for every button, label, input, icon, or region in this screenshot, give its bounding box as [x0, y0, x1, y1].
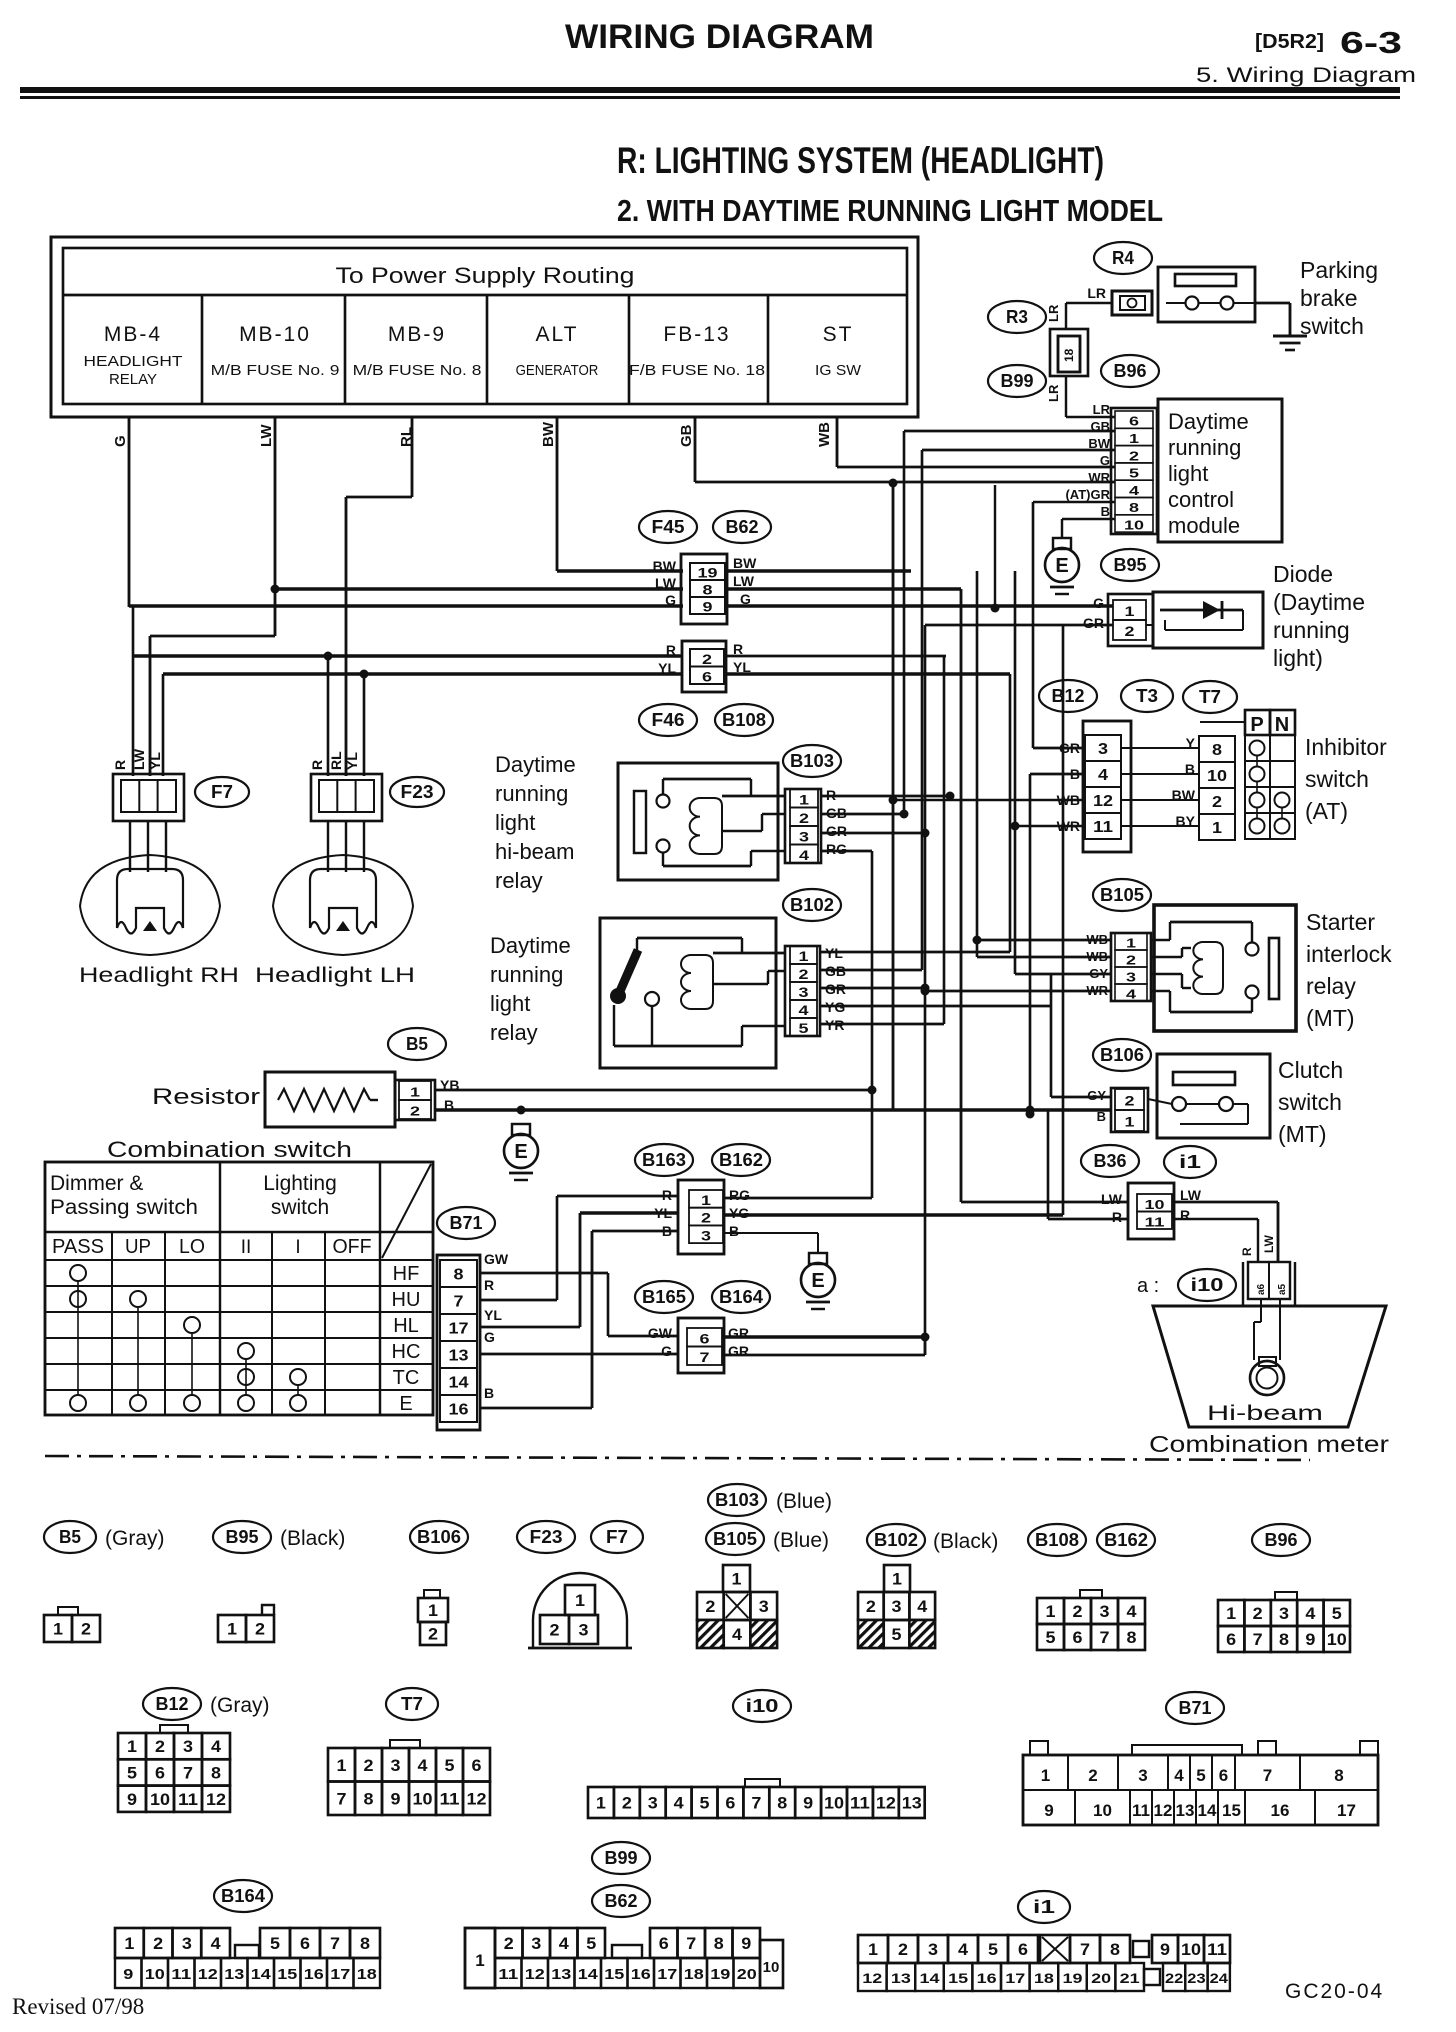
svg-text:FB-13: FB-13	[663, 323, 730, 346]
svg-text:9: 9	[1160, 1940, 1170, 1959]
svg-text:3: 3	[928, 1940, 938, 1959]
svg-text:M/B FUSE No. 9: M/B FUSE No. 9	[211, 362, 340, 379]
svg-text:B: B	[484, 1385, 494, 1401]
svg-text:GB: GB	[678, 424, 695, 447]
svg-text:F23: F23	[530, 1527, 563, 1547]
svg-text:B71: B71	[1179, 1698, 1212, 1718]
svg-text:Headlight RH: Headlight RH	[79, 964, 239, 987]
svg-text:15: 15	[1222, 1801, 1241, 1820]
svg-text:13: 13	[224, 1966, 244, 1983]
svg-text:B164: B164	[221, 1886, 265, 1906]
svg-text:HF: HF	[393, 1263, 420, 1285]
svg-text:1: 1	[596, 1794, 606, 1813]
svg-text:IG SW: IG SW	[815, 362, 862, 379]
svg-text:2: 2	[1253, 1604, 1263, 1623]
svg-text:7: 7	[686, 1934, 696, 1953]
svg-text:relay: relay	[495, 868, 543, 893]
svg-text:3: 3	[391, 1756, 401, 1775]
svg-text:G: G	[661, 1343, 672, 1359]
svg-text:B162: B162	[1104, 1530, 1148, 1550]
svg-text:B163: B163	[642, 1150, 686, 1170]
svg-text:11: 11	[1093, 819, 1113, 836]
svg-text:11: 11	[440, 1789, 460, 1808]
svg-text:7: 7	[700, 1349, 710, 1365]
svg-text:5: 5	[700, 1794, 710, 1813]
svg-text:i1: i1	[1033, 1897, 1055, 1917]
svg-text:(MT): (MT)	[1278, 1121, 1327, 1147]
svg-text:5. Wiring Diagram: 5. Wiring Diagram	[1196, 64, 1416, 87]
svg-text:PASS: PASS	[52, 1236, 104, 1258]
svg-text:B108: B108	[1035, 1530, 1079, 1550]
svg-text:P: P	[1250, 714, 1263, 736]
svg-text:3: 3	[183, 1737, 193, 1756]
svg-text:1: 1	[1046, 1602, 1056, 1621]
svg-text:16: 16	[631, 1966, 651, 1983]
svg-text:LW: LW	[131, 748, 147, 770]
svg-text:8: 8	[364, 1789, 374, 1808]
svg-text:1: 1	[868, 1940, 878, 1959]
svg-text:Inhibitor: Inhibitor	[1305, 734, 1387, 760]
svg-text:B95: B95	[1114, 555, 1147, 575]
svg-text:6: 6	[1018, 1940, 1028, 1959]
svg-text:Daytime: Daytime	[1168, 409, 1249, 434]
svg-text:i1: i1	[1179, 1152, 1201, 1172]
svg-text:OFF: OFF	[333, 1236, 372, 1258]
svg-text:GR: GR	[826, 823, 847, 839]
svg-text:B165: B165	[642, 1287, 686, 1307]
svg-text:[D5R2]: [D5R2]	[1255, 31, 1324, 53]
svg-text:21: 21	[1120, 1970, 1140, 1986]
svg-text:B102: B102	[874, 1530, 918, 1550]
svg-text:B106: B106	[1100, 1045, 1144, 1065]
svg-text:5: 5	[445, 1756, 455, 1775]
svg-text:YL: YL	[344, 752, 360, 770]
svg-text:12: 12	[206, 1790, 226, 1809]
svg-text:B36: B36	[1094, 1151, 1127, 1171]
svg-text:G: G	[665, 592, 676, 608]
svg-text:Parking: Parking	[1300, 257, 1378, 283]
svg-text:11: 11	[1207, 1940, 1227, 1959]
svg-text:12: 12	[1093, 793, 1113, 810]
svg-text:1: 1	[428, 1601, 438, 1620]
svg-text:5: 5	[270, 1934, 280, 1953]
svg-text:10: 10	[1207, 768, 1227, 785]
svg-text:17: 17	[1005, 1970, 1025, 1986]
svg-text:2: 2	[153, 1934, 163, 1953]
svg-text:3: 3	[1098, 741, 1108, 758]
svg-text:MB-10: MB-10	[239, 323, 311, 346]
svg-text:WR: WR	[1088, 470, 1110, 485]
svg-text:G: G	[1093, 595, 1104, 611]
svg-text:B71: B71	[450, 1213, 483, 1233]
svg-text:7: 7	[1263, 1766, 1272, 1785]
svg-text:HEADLIGHT: HEADLIGHT	[84, 353, 183, 370]
svg-text:9: 9	[123, 1966, 133, 1983]
svg-text:19: 19	[1063, 1970, 1083, 1986]
svg-text:LW: LW	[1101, 1191, 1123, 1207]
svg-text:15: 15	[604, 1966, 624, 1983]
svg-text:12: 12	[198, 1966, 218, 1983]
svg-text:Hi-beam: Hi-beam	[1207, 1402, 1323, 1425]
svg-text:8: 8	[454, 1267, 464, 1284]
svg-text:2: 2	[1125, 1093, 1135, 1109]
svg-text:2: 2	[622, 1794, 632, 1813]
svg-text:1: 1	[127, 1737, 137, 1756]
svg-text:ALT: ALT	[536, 323, 579, 346]
svg-text:10: 10	[763, 1959, 780, 1976]
svg-text:R: R	[484, 1277, 494, 1293]
svg-text:9: 9	[703, 599, 713, 615]
svg-text:B105: B105	[1100, 885, 1144, 905]
svg-text:3: 3	[1126, 970, 1136, 985]
svg-text:RG: RG	[729, 1187, 750, 1203]
svg-text:running: running	[490, 962, 563, 987]
svg-text:G: G	[1100, 453, 1110, 468]
svg-text:RELAY: RELAY	[109, 371, 157, 388]
svg-text:13: 13	[449, 1348, 469, 1365]
svg-text:8: 8	[211, 1763, 221, 1782]
svg-text:3: 3	[759, 1597, 769, 1616]
svg-text:B62: B62	[605, 1891, 638, 1911]
svg-text:YL: YL	[658, 660, 676, 676]
svg-text:4: 4	[958, 1940, 969, 1959]
svg-text:I: I	[295, 1237, 300, 1258]
svg-text:B62: B62	[726, 517, 759, 537]
svg-text:RG: RG	[826, 841, 847, 857]
svg-text:B5: B5	[406, 1034, 428, 1054]
svg-text:5: 5	[799, 1020, 809, 1036]
svg-text:LO: LO	[179, 1236, 205, 1258]
svg-text:1: 1	[1125, 1114, 1135, 1130]
svg-text:3: 3	[1138, 1766, 1147, 1785]
svg-text:3: 3	[182, 1934, 192, 1953]
svg-text:BW: BW	[1088, 436, 1110, 451]
svg-text:2: 2	[81, 1620, 91, 1639]
svg-text:light: light	[1168, 461, 1208, 486]
svg-text:1: 1	[337, 1756, 347, 1775]
svg-text:BW: BW	[733, 555, 757, 571]
svg-text:T3: T3	[1136, 686, 1158, 706]
svg-text:(MT): (MT)	[1306, 1005, 1355, 1031]
svg-text:2: 2	[550, 1621, 560, 1640]
svg-text:R: R	[1240, 1247, 1254, 1256]
svg-text:MB-4: MB-4	[104, 323, 162, 346]
svg-text:1: 1	[575, 1591, 585, 1610]
svg-text:2: 2	[428, 1625, 438, 1644]
svg-text:1: 1	[701, 1192, 711, 1208]
svg-text:B96: B96	[1114, 361, 1147, 381]
svg-text:B12: B12	[156, 1694, 189, 1714]
svg-text:(Blue): (Blue)	[773, 1529, 829, 1552]
svg-text:E: E	[399, 1393, 412, 1415]
svg-text:LW: LW	[258, 424, 275, 447]
svg-text:6: 6	[300, 1934, 310, 1953]
svg-text:19: 19	[698, 565, 718, 581]
svg-text:E: E	[514, 1141, 527, 1163]
svg-text:6-3: 6-3	[1340, 25, 1402, 60]
svg-text:17: 17	[449, 1321, 469, 1338]
svg-text:BW: BW	[540, 421, 557, 447]
svg-text:B103: B103	[715, 1490, 759, 1510]
svg-text:13: 13	[891, 1970, 911, 1986]
svg-text:R: R	[733, 641, 743, 657]
svg-text:8: 8	[1127, 1628, 1137, 1647]
svg-text:2: 2	[799, 810, 809, 826]
svg-text:R4: R4	[1112, 248, 1134, 268]
svg-text:HU: HU	[392, 1289, 421, 1311]
svg-text:1: 1	[892, 1570, 902, 1589]
svg-text:16: 16	[304, 1966, 324, 1983]
svg-text:Daytime: Daytime	[490, 933, 571, 958]
svg-text:4: 4	[799, 847, 809, 863]
svg-text:F45: F45	[652, 517, 685, 537]
svg-text:4: 4	[1127, 1602, 1138, 1621]
svg-text:5: 5	[1332, 1604, 1342, 1623]
svg-text:17: 17	[330, 1966, 350, 1983]
svg-text:22: 22	[1165, 1970, 1184, 1986]
svg-text:14: 14	[449, 1375, 469, 1392]
svg-text:GB: GB	[1091, 419, 1111, 434]
svg-text:8: 8	[703, 582, 713, 598]
svg-text:GY: GY	[1087, 1088, 1106, 1103]
svg-text:9: 9	[391, 1789, 401, 1808]
svg-text:E: E	[1055, 555, 1068, 577]
svg-text:1: 1	[799, 791, 809, 807]
svg-text:6: 6	[725, 1794, 735, 1813]
svg-text:Headlight LH: Headlight LH	[255, 964, 415, 987]
svg-text:19: 19	[710, 1966, 730, 1983]
svg-text:1: 1	[1041, 1766, 1050, 1785]
svg-text:6: 6	[1226, 1630, 1236, 1649]
svg-text:1: 1	[1212, 820, 1222, 837]
svg-text:interlock: interlock	[1306, 941, 1392, 967]
svg-text:switch: switch	[1305, 766, 1369, 792]
svg-text:1: 1	[732, 1570, 742, 1589]
svg-text:B102: B102	[790, 895, 834, 915]
svg-text:LW: LW	[733, 573, 755, 589]
svg-text:1: 1	[799, 948, 809, 964]
svg-text:3: 3	[799, 984, 809, 1000]
svg-text:1: 1	[1126, 936, 1136, 951]
svg-text:5: 5	[127, 1763, 137, 1782]
svg-text:Combination switch: Combination switch	[107, 1137, 352, 1162]
svg-text:1: 1	[124, 1934, 134, 1953]
svg-text:2: 2	[898, 1940, 908, 1959]
svg-text:LW: LW	[1262, 1234, 1276, 1253]
svg-text:18: 18	[684, 1966, 704, 1983]
svg-text:3: 3	[892, 1597, 902, 1616]
svg-text:14: 14	[1198, 1801, 1217, 1820]
svg-text:12: 12	[862, 1970, 882, 1986]
svg-text:2: 2	[1129, 448, 1139, 463]
svg-text:2: 2	[702, 651, 712, 667]
svg-text:GW: GW	[648, 1325, 673, 1341]
svg-text:Clutch: Clutch	[1278, 1057, 1343, 1083]
svg-text:4: 4	[559, 1934, 570, 1953]
svg-text:3: 3	[701, 1227, 711, 1243]
svg-text:T7: T7	[1199, 687, 1221, 707]
svg-text:6: 6	[702, 668, 712, 684]
svg-text:YL: YL	[484, 1307, 502, 1323]
svg-text:5: 5	[1046, 1628, 1056, 1647]
svg-text:18: 18	[1062, 348, 1076, 362]
svg-text:R: R	[662, 1187, 672, 1203]
svg-text:Daytime: Daytime	[495, 752, 576, 777]
svg-text:HC: HC	[392, 1341, 421, 1363]
svg-text:(Black): (Black)	[280, 1527, 345, 1550]
svg-text:RL: RL	[328, 751, 344, 770]
svg-text:F7: F7	[606, 1527, 628, 1547]
svg-text:3: 3	[579, 1621, 589, 1640]
svg-text:LW: LW	[655, 575, 677, 591]
svg-text:R: R	[666, 642, 676, 658]
svg-text:a6: a6	[1256, 1283, 1267, 1295]
svg-text:M/B FUSE No. 8: M/B FUSE No. 8	[353, 362, 482, 379]
svg-text:B: B	[729, 1223, 739, 1239]
svg-text:2: 2	[1126, 953, 1136, 968]
svg-text:i10: i10	[1191, 1275, 1224, 1295]
svg-text:6: 6	[659, 1934, 669, 1953]
svg-text:3: 3	[531, 1934, 541, 1953]
svg-text:switch: switch	[271, 1196, 329, 1219]
svg-text:R: R	[1112, 1209, 1122, 1225]
svg-text:17: 17	[1337, 1801, 1356, 1820]
svg-text:switch: switch	[1278, 1089, 1342, 1115]
svg-text:WB: WB	[816, 422, 833, 447]
svg-text:UP: UP	[125, 1236, 151, 1258]
svg-text:6: 6	[1219, 1766, 1228, 1785]
svg-text:3: 3	[799, 828, 809, 844]
svg-text:4: 4	[732, 1625, 743, 1644]
svg-text:a :: a :	[1137, 1275, 1159, 1297]
svg-text:4: 4	[211, 1934, 222, 1953]
svg-text:GR: GR	[728, 1343, 749, 1359]
svg-text:B99: B99	[1001, 371, 1034, 391]
svg-text:13: 13	[551, 1966, 571, 1983]
svg-text:(AT): (AT)	[1305, 798, 1348, 824]
svg-text:(Daytime: (Daytime	[1273, 589, 1365, 615]
svg-text:4: 4	[1305, 1604, 1316, 1623]
svg-text:2: 2	[1212, 794, 1222, 811]
svg-text:2: 2	[155, 1737, 165, 1756]
svg-text:12: 12	[876, 1794, 896, 1813]
svg-text:N: N	[1275, 714, 1289, 736]
svg-text:6: 6	[472, 1756, 482, 1775]
svg-text:10: 10	[1093, 1801, 1112, 1820]
svg-text:20: 20	[737, 1966, 757, 1983]
svg-text:3: 3	[1279, 1604, 1289, 1623]
svg-text:12: 12	[467, 1789, 487, 1808]
svg-text:1: 1	[53, 1620, 63, 1639]
svg-text:24: 24	[1210, 1970, 1229, 1986]
svg-text:G: G	[112, 435, 129, 447]
svg-text:F46: F46	[652, 710, 685, 730]
svg-text:GW: GW	[484, 1251, 509, 1267]
svg-text:HL: HL	[393, 1315, 419, 1337]
svg-text:14: 14	[578, 1966, 599, 1983]
svg-text:5: 5	[1129, 466, 1139, 481]
svg-text:8: 8	[777, 1794, 787, 1813]
svg-text:6: 6	[1073, 1628, 1083, 1647]
svg-text:13: 13	[902, 1794, 922, 1813]
svg-text:Revised 07/98: Revised 07/98	[12, 1994, 144, 2019]
svg-text:10: 10	[145, 1966, 165, 1983]
svg-text:2: 2	[504, 1934, 514, 1953]
svg-text:9: 9	[127, 1790, 137, 1809]
svg-text:14: 14	[920, 1970, 940, 1986]
svg-text:14: 14	[251, 1966, 272, 1983]
svg-text:GC20-04: GC20-04	[1285, 1980, 1384, 2003]
svg-text:6: 6	[155, 1763, 165, 1782]
svg-text:B96: B96	[1265, 1530, 1298, 1550]
svg-text:4: 4	[1126, 987, 1137, 1002]
svg-text:Starter: Starter	[1306, 909, 1375, 935]
svg-text:2: 2	[799, 966, 809, 982]
svg-text:12: 12	[1154, 1801, 1173, 1820]
svg-text:20: 20	[1091, 1970, 1111, 1986]
svg-text:(Black): (Black)	[933, 1530, 998, 1553]
svg-text:4: 4	[1129, 483, 1140, 498]
svg-text:2: 2	[364, 1756, 374, 1775]
svg-text:7: 7	[1253, 1630, 1263, 1649]
svg-text:GENERATOR: GENERATOR	[516, 362, 599, 379]
svg-text:8: 8	[1212, 742, 1222, 759]
svg-text:R: LIGHTING SYSTEM (HEADLIGHT: R: LIGHTING SYSTEM (HEADLIGHT)	[617, 140, 1104, 181]
svg-text:5: 5	[586, 1934, 596, 1953]
svg-text:Combination meter: Combination meter	[1149, 1431, 1389, 1457]
svg-text:2: 2	[1073, 1602, 1083, 1621]
svg-text:B106: B106	[417, 1527, 461, 1547]
svg-text:11: 11	[850, 1794, 870, 1813]
svg-text:9: 9	[1044, 1801, 1053, 1820]
svg-text:11: 11	[1145, 1214, 1165, 1229]
svg-text:F/B FUSE No. 18: F/B FUSE No. 18	[629, 362, 765, 379]
svg-text:1: 1	[475, 1951, 484, 1970]
svg-text:B99: B99	[605, 1848, 638, 1868]
svg-text:F23: F23	[401, 782, 434, 802]
svg-text:4: 4	[211, 1737, 222, 1756]
svg-text:17: 17	[657, 1966, 677, 1983]
svg-text:8: 8	[1129, 500, 1139, 515]
svg-text:4: 4	[674, 1794, 685, 1813]
svg-text:B162: B162	[719, 1150, 763, 1170]
svg-text:4: 4	[1098, 767, 1108, 784]
svg-text:B95: B95	[226, 1527, 259, 1547]
svg-text:2. WITH DAYTIME RUNNING LIGHT: 2. WITH DAYTIME RUNNING LIGHT MODEL	[617, 193, 1163, 228]
svg-text:10: 10	[413, 1789, 433, 1808]
svg-text:1: 1	[1125, 603, 1135, 619]
svg-text:18: 18	[1034, 1970, 1054, 1986]
svg-text:11: 11	[171, 1966, 191, 1983]
svg-text:15: 15	[277, 1966, 297, 1983]
svg-text:MB-9: MB-9	[388, 323, 446, 346]
svg-text:(Gray): (Gray)	[105, 1527, 165, 1550]
svg-text:control: control	[1168, 487, 1234, 512]
svg-text:II: II	[241, 1237, 252, 1258]
svg-text:5: 5	[988, 1940, 998, 1959]
svg-text:LR: LR	[1087, 285, 1106, 301]
svg-text:5: 5	[1196, 1766, 1205, 1785]
svg-text:4: 4	[917, 1597, 928, 1616]
svg-text:GR: GR	[1083, 615, 1104, 631]
svg-text:8: 8	[360, 1934, 370, 1953]
svg-text:YG: YG	[729, 1205, 749, 1221]
svg-text:11: 11	[1132, 1801, 1150, 1820]
svg-text:BW: BW	[653, 558, 677, 574]
svg-text:1: 1	[1129, 431, 1139, 446]
svg-text:Dimmer &: Dimmer &	[50, 1172, 143, 1195]
svg-text:3: 3	[648, 1794, 658, 1813]
